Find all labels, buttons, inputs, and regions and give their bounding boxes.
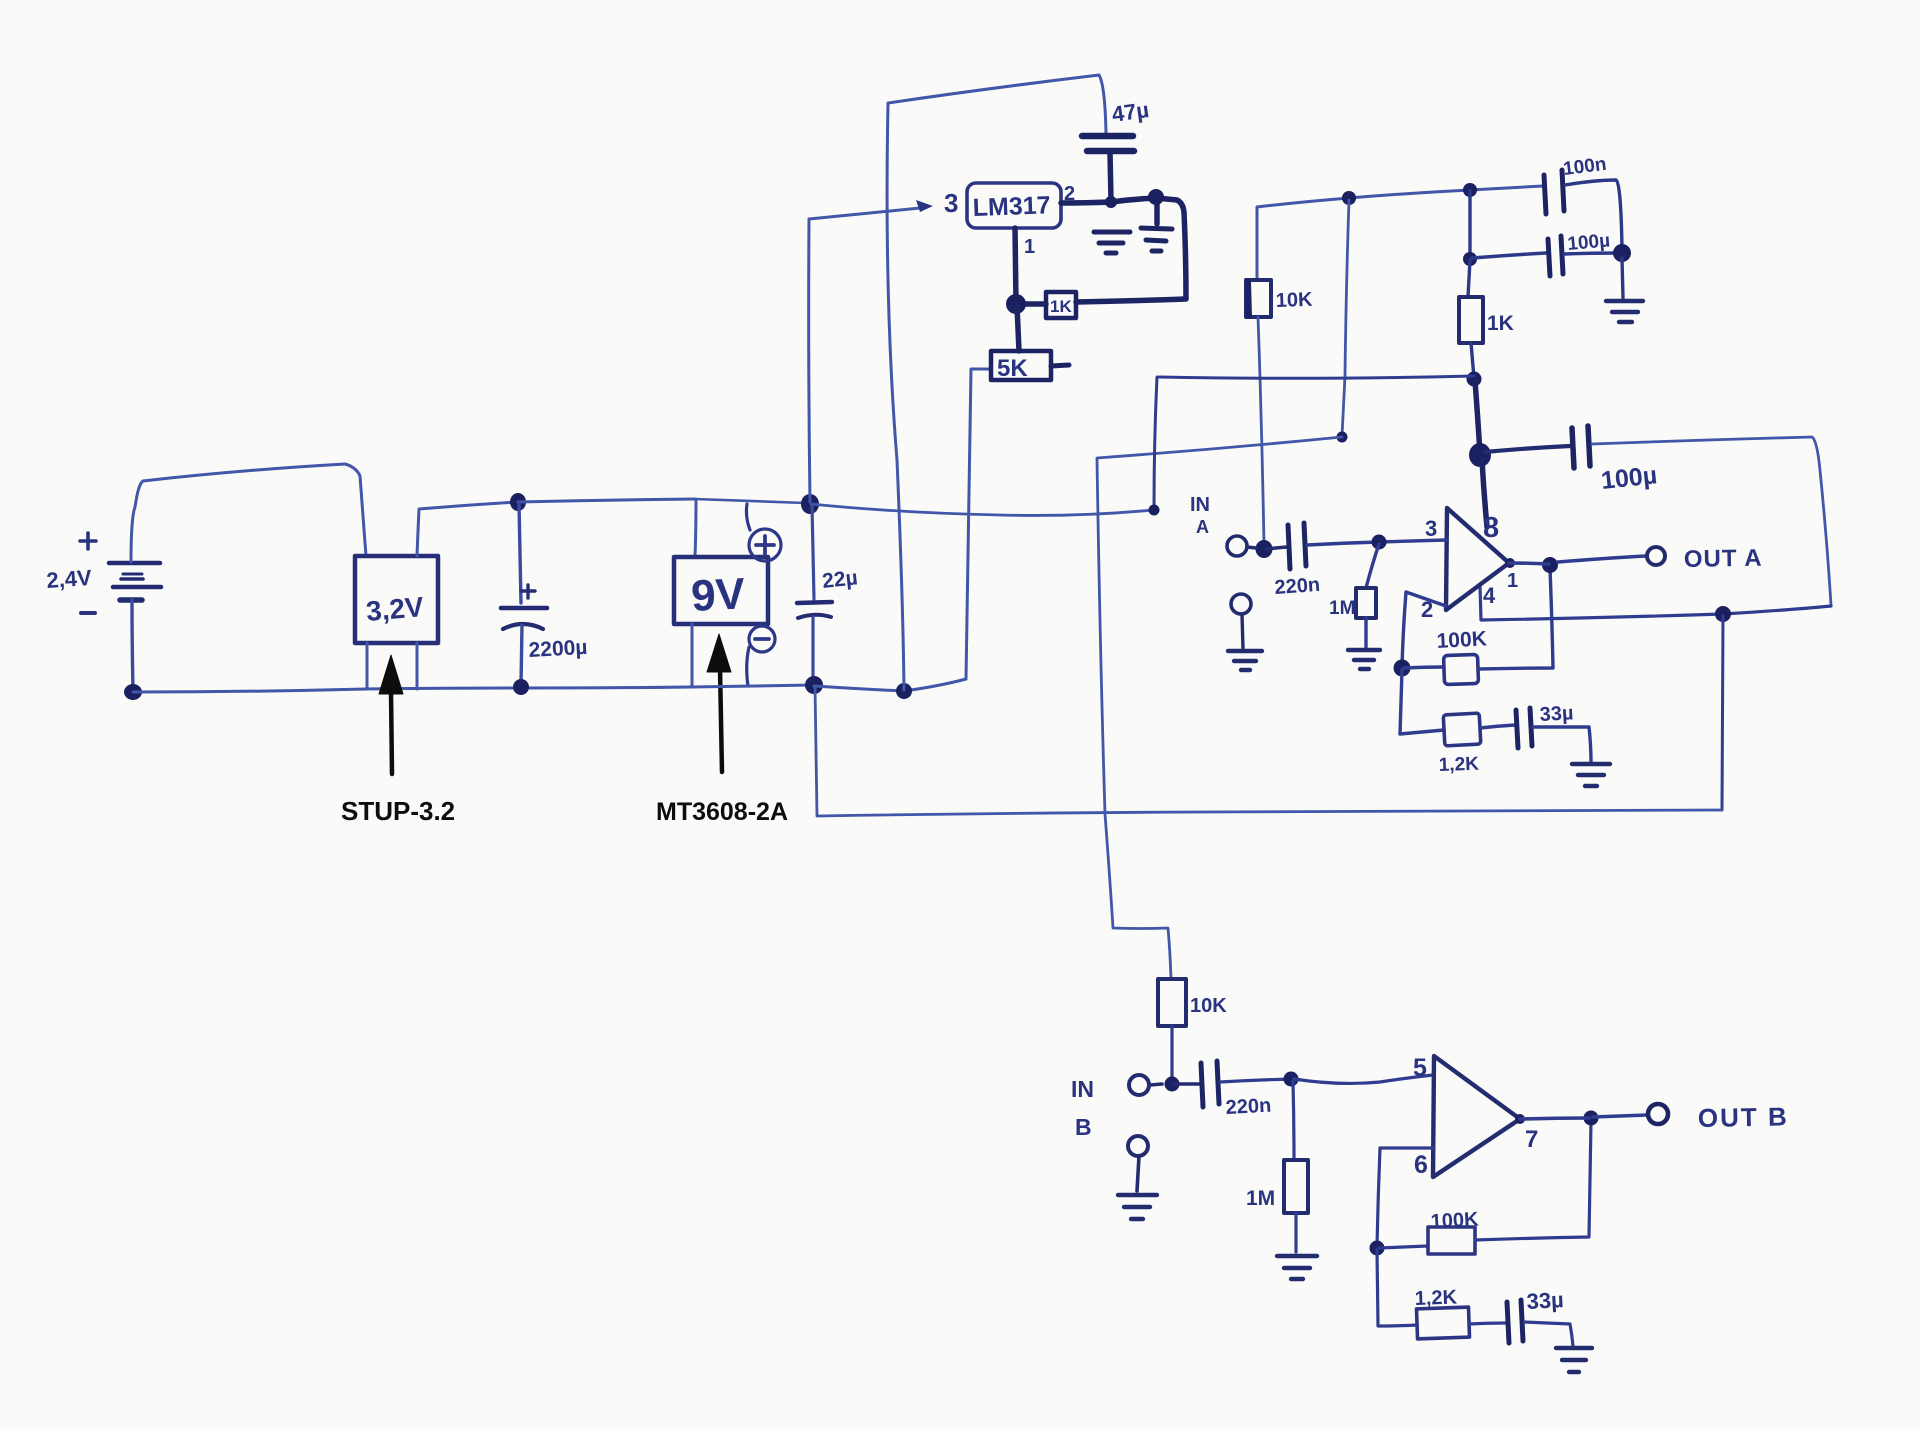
wire to R5 1M [1366,544,1379,588]
wire battery - to bottom rail [132,600,133,690]
resistor R1 1K (adj) [1046,292,1076,318]
wire R6 to output node [1478,568,1553,669]
wire IN B to C9 [1150,1084,1200,1085]
battery BT1 2.4V [109,563,161,600]
wire +9V feed run (to V+ node) [1159,376,1474,378]
svg-text:10K: 10K [1190,995,1227,1017]
svg-text:3,2V: 3,2V [365,591,425,627]
ground under R9 [1277,1256,1317,1279]
wire R9 to ground [1294,1213,1297,1252]
svg-text:1M: 1M [1246,1187,1275,1210]
svg-text:2,4V: 2,4V [46,565,93,593]
svg-text:OUT B: OUT B [1698,1101,1789,1133]
wire pin7 to OUT B [1520,1115,1647,1119]
wire filter gnd drop [1622,258,1623,298]
svg-text:4: 4 [1483,583,1496,608]
terminal OUT B [1648,1104,1668,1124]
svg-text:100K: 100K [1430,1208,1479,1233]
svg-text:6: 6 [1414,1151,1428,1179]
wire C7 to pin 3 [1307,540,1446,545]
wire junction to pin 5 [1294,1075,1433,1083]
capacitor C6 100u (output A) [1485,426,1590,468]
wire IN A to C7 [1247,547,1287,549]
module U1 STUP-3.2 box [355,556,438,643]
wire V- drop to gnd bus [1722,616,1723,810]
capacitor C9 220n (B) [1201,1061,1219,1107]
node op-amp A output vertex [1505,558,1515,568]
node C1 bottom junction [513,679,529,695]
svg-text:IN: IN [1190,494,1210,516]
op-amp U4B triangle [1433,1056,1520,1177]
svg-text:STUP-3.2: STUP-3.2 [341,796,455,826]
node +9V junction above C2 [801,494,819,514]
wire pin2 link [1402,592,1446,667]
ground at filter caps [1606,301,1643,322]
resistor R10 100K (B) [1428,1227,1475,1254]
node feedback junction A [1394,660,1411,677]
svg-text:LM317: LM317 [972,191,1051,222]
svg-text:IN: IN [1071,1076,1094,1102]
wire junction down to R7 [1400,670,1444,734]
wire R10 to output node B [1475,1122,1591,1240]
node filter junction top [1463,183,1477,197]
capacitor C4 100n [1544,170,1564,214]
wire 47u gnd stub [1154,200,1160,224]
wire C4 right to gnd corner [1565,180,1622,250]
svg-text:1: 1 [1024,236,1035,258]
node bias link end [1337,432,1348,443]
node IN A junction [1256,540,1273,558]
wire junction to R6 [1404,667,1444,668]
wire pin1 to OUT A [1509,556,1646,564]
svg-text:1: 1 [1507,570,1518,592]
capacitor C10 33u (B) [1507,1300,1523,1343]
svg-text:3: 3 [1425,516,1437,541]
ground at pin2 node [1141,228,1172,251]
wire filter node drop [1468,191,1471,258]
svg-text:10K: 10K [1275,289,1313,312]
wire U1 right-bottom stub [417,502,518,556]
battery minus label [81,611,95,615]
op-amp U4A triangle [1446,508,1509,610]
svg-text:100µ: 100µ [1600,461,1659,495]
wire filter node to R4 [1468,260,1470,297]
wire C6 right to output loop [1592,437,1831,605]
node op-amp B output vertex [1515,1114,1525,1124]
arrow to MT3608-2A [707,634,731,772]
wire bias lower link to B riser [1097,437,1342,458]
resistor R5 1M (A) [1356,588,1376,618]
potentiometer R2 5K [991,351,1051,380]
wire +9V rail to right corner [811,504,1153,515]
resistor R8 10K (channel B bias) [1158,979,1186,1026]
wire R2 right stub [1051,365,1069,366]
svg-text:100K: 100K [1436,627,1487,653]
ground under C10 [1556,1348,1592,1372]
resistor R4 1K (supply) [1459,297,1483,343]
svg-text:B: B [1075,1114,1092,1140]
wire U3 pin2 output run [1061,198,1186,302]
wire pin1 drop [1015,228,1016,303]
ground at IN A [1228,651,1262,670]
wire R1 left to pin1 node [1018,301,1046,307]
capacitor C2 22u [797,505,832,683]
resistor R7 1,2K (A) [1443,713,1481,746]
battery plus label [80,533,96,549]
node output B junction [1584,1111,1599,1126]
wire U1 left-bottom stub [366,643,369,688]
resistor R11 1,2K (B) [1416,1307,1469,1339]
resistor R9 1M (B) [1284,1160,1308,1213]
wire junction down to R11 [1377,1250,1417,1326]
svg-text:5: 5 [1413,1054,1427,1082]
capacitor C7 220n (A) [1288,523,1306,569]
terminal OUT A [1647,547,1665,565]
wire R8 to IN B node [1170,1026,1173,1082]
wire U1 right-top to top rail [416,643,419,689]
wire C10 to ground [1524,1322,1573,1346]
wire V+ node to op-amp pin 8 [1475,381,1480,454]
terminal IN A ground stub [1231,594,1251,614]
svg-text:8: 8 [1483,512,1499,544]
svg-text:220n: 220n [1225,1095,1272,1119]
resistor R3 10K (channel A bias) [1246,280,1271,317]
svg-text:33µ: 33µ [1526,1287,1564,1314]
svg-text:100µ: 100µ [1567,230,1611,255]
wire bottom rail (U1 to 9V module) [366,687,692,689]
wire stub to ground [1242,614,1243,649]
wire pin1 node to 5K [1017,306,1019,351]
svg-text:1,2K: 1,2K [1414,1287,1458,1310]
svg-text:100n: 100n [1562,154,1608,180]
node pin2 gnd junction [1148,189,1164,205]
node bias junction [1342,191,1356,205]
wire gnd bus (long bottom run) [815,686,1722,816]
wire 5K-left riser [966,369,991,679]
wire pin3 riser to +9V node [809,219,810,502]
node R4 bottom junction [1467,372,1482,387]
capacitor C3 47u [1082,136,1134,200]
wire +9V feed riser from rail [1154,377,1157,509]
node left-loop gnd junction [896,683,912,699]
node top rail junction at C1 [510,493,526,511]
wire channel-B bias riser (long vertical) [1097,459,1171,979]
wire bottom rail (U2 to 22u) [692,685,813,687]
svg-text:1K: 1K [1050,297,1072,316]
arrowhead into pin 3 [916,200,933,212]
wire bottom rail left (battery to U1) [133,689,366,692]
node feedback junction B [1370,1241,1385,1256]
capacitor C5 100u (filter) [1472,236,1618,276]
regulator U3 LM317 box [967,183,1061,228]
module U2 MT3608 box [674,557,768,624]
node C2 bottom gnd junction [805,676,823,694]
svg-text:1K: 1K [1487,312,1514,335]
svg-text:3: 3 [944,188,958,218]
wire into pin 8 [1482,460,1487,527]
arrow to STUP-3.2 [379,655,403,774]
wire left loop vertical (47u to gnd rail) [887,104,904,690]
ground at IN B [1118,1195,1157,1219]
ground under 47u [1094,232,1130,253]
wire R4 bottom to V+ node [1471,343,1474,378]
U2 plus terminal [746,504,781,561]
svg-text:5K: 5K [997,355,1028,382]
svg-text:1,2K: 1,2K [1438,754,1479,776]
wire junction to R9 1M [1293,1081,1294,1160]
capacitor C8 33u (A) [1516,708,1532,748]
svg-text:2200µ: 2200µ [528,636,588,662]
node output A junction [1542,557,1558,573]
node pin5 bias junction [1284,1072,1299,1087]
wire bias line from 10K-A top [1257,186,1543,280]
node IN B junction [1165,1077,1180,1092]
wire 9V module top stub [695,500,696,557]
svg-text:1M: 1M [1329,598,1355,619]
svg-text:OUT A: OUT A [1684,545,1763,573]
node battery-gnd junction [124,684,142,700]
wire junction to R10 [1379,1246,1428,1248]
wire R11 to C10 [1469,1323,1506,1324]
wire U3 pin3 lead with arrow [809,208,920,219]
wire U2 left-bottom stub [691,624,694,686]
wire C9 to pin 5 [1220,1079,1291,1082]
node filter gnd junction [1613,244,1631,262]
wire C8 to ground [1533,727,1591,762]
node pin1 junction [1006,294,1026,314]
node pin8 decoupling junction [1469,443,1491,467]
wire battery + to U1 top [131,464,366,562]
wire R3 to IN-A node [1258,317,1264,546]
node V- rail junction [1715,606,1731,622]
svg-text:MT3608-2A: MT3608-2A [656,798,788,826]
node rail corner [1149,505,1160,516]
ground under R5 [1348,650,1380,669]
terminal IN B ground stub [1128,1136,1148,1156]
svg-text:33µ: 33µ [1539,702,1574,726]
wire R7 to C8 [1480,725,1515,728]
terminal IN B [1129,1075,1149,1095]
node 47u to pin2 junction [1105,196,1117,208]
wire bottom rail (22u to 5K drop) [814,679,966,691]
U2 minus terminal [747,626,775,686]
svg-text:22µ: 22µ [821,566,859,593]
ground under C8 [1572,764,1610,786]
capacitor C1 2200u [501,503,547,685]
wire bias drop to lower link [1342,200,1349,436]
node pin3 bias junction [1372,535,1387,550]
wire left loop top run [888,75,1106,133]
svg-text:47µ: 47µ [1110,97,1150,127]
resistor R6 100K (A) [1444,654,1479,684]
wire stub to ground B [1137,1156,1139,1191]
wire top rail over U2 to +9V node [695,499,805,503]
terminal IN A [1227,536,1247,556]
wire V- rail (loop bottom) [1480,586,1831,620]
wire top rail C1 to 9V module [518,499,695,502]
svg-text:7: 7 [1525,1126,1538,1153]
node filter junction mid [1463,252,1477,266]
svg-text:9V: 9V [690,569,747,621]
wire R5 to ground [1364,618,1367,648]
svg-text:A: A [1196,517,1209,537]
svg-text:220n: 220n [1274,574,1321,599]
wire pin6 link [1377,1148,1433,1246]
